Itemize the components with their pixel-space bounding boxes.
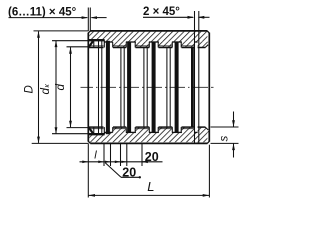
chamfer dim arrow right-pointing [82,16,89,19]
svg-text:(6…11) × 45°: (6…11) × 45° [8,7,77,19]
recess step top [103,40,105,47]
chamfer dim arrow left-pointing [90,16,97,19]
hatch bottom band shallow strip [89,134,104,142]
recess root line bottom [88,133,104,135]
hatch bottom band end block [198,127,209,132]
s dim ext top [211,126,239,128]
recess entry chamfer far edge bottom [93,127,95,133]
groove g5 wall / extension line left [194,11,196,143]
svg-text:L: L [147,179,154,194]
leader for lower 20 [105,163,121,178]
chamfer dim tail right [92,17,107,19]
right end inner chamfer bottom [205,127,208,130]
s arrow down [232,120,235,127]
groove solid bar g2 [127,42,131,132]
dimension dk arrow down [55,127,58,134]
svg-text:d: d [40,88,52,95]
bore line bottom (thick, with groove gaps) [89,126,205,128]
svg-text:2 × 45°: 2 × 45° [143,6,180,18]
bottom chain arrow to left face [82,161,88,164]
hatch bottom band deep block 3 [159,127,172,132]
chamfer outer bottom-right [207,141,209,143]
bottom chain ext at 104 [103,143,105,166]
L arrow right [203,194,210,197]
thread major thin line top [89,45,194,47]
groove notch side walls bottom band [126,127,181,132]
chamfer outer top-left [88,31,90,33]
dimension d arrow up [69,47,72,54]
bottom chain dim line [80,161,147,163]
thread major thin line bottom [89,128,194,130]
groove solid bar g4 [175,42,179,132]
groove far-side channel lines g3 [144,48,147,128]
dimension dk line [55,41,57,134]
chamfer ext line x=90.3 [89,8,91,32]
hatch top band deep block 2 [136,42,149,48]
bottom chain ext line at left face [87,143,89,197]
recess entry chamfer far edge top [93,41,95,47]
hatch bottom band deep block 1 [113,127,126,132]
hatch top band deep block 1 [113,42,126,48]
hatch top band deep block 3 [159,42,172,48]
bottom chain arrow at 104 [98,161,104,164]
groove g5 wall / extension line right [198,11,200,143]
dimension d line [70,47,72,127]
L dim right ext [208,145,210,198]
groove solid bar g3 [152,42,156,132]
chamfer dim line top-right [143,16,193,18]
dimension D extension bottom [32,142,89,144]
part left face [87,33,89,142]
dimension D arrow up [37,31,40,38]
dimension D arrow down [37,137,40,144]
dimension d extension top [67,46,89,48]
bottom chain arrow at 110.5 [105,161,111,163]
groove far-side channel lines g1 [99,41,102,134]
L arrow left [88,194,95,197]
hatch top band end block [198,42,209,48]
groove 1 notch walls top [104,42,113,132]
part outline top edge [90,30,207,32]
groove far-side channel lines g2 [121,48,124,128]
hatch top band deep block 4 [182,42,195,48]
groove notch root lines top band [126,41,198,43]
hatch bottom band deep block 4 [182,127,195,132]
recess step bottom [103,127,105,134]
right end inner chamfer top [205,45,208,48]
s dim ext bottom [211,142,239,144]
dimension D extension top [34,30,89,32]
groove solid bar g5 [191,48,194,128]
bottom chain arrow at 125.8 [115,161,121,164]
dimension d extension bottom [67,127,89,129]
dimension dk arrow up [55,40,58,47]
dimension d arrow down [69,121,72,128]
recess entry chamfer top [89,41,93,47]
chamfer dim arrow right-pointing (right) [188,16,195,19]
L dim line [88,194,209,196]
axis center line [81,86,214,88]
bottom chain ext at 110.5 [110,143,112,166]
groove far-side channel lines g4 [167,48,170,128]
s dim line lower tail [233,143,235,157]
svg-text:20: 20 [122,166,136,180]
chamfer ext line (left face up) [87,8,89,32]
hatch top band shallow strip [89,32,104,40]
groove notch side walls top band [126,42,181,48]
recess entry chamfer bottom [89,128,93,134]
svg-text:D: D [23,85,35,93]
bottom chain ext at 125.8 [120,143,122,166]
bore line top (thick, with groove gaps) [89,47,205,49]
part right face [208,33,210,142]
chamfer dim tail far right [199,16,210,18]
dimension dk extension bottom [52,133,88,135]
dimension dk extension top [52,40,88,42]
svg-text:s: s [219,136,231,142]
groove notch root lines bottom band [126,131,198,133]
bottom chain ext at 141.5 [141,143,143,166]
s dim line upper tail [233,112,235,128]
svg-text:d: d [55,84,67,91]
groove solid bar g1 [106,41,110,134]
s arrow up [232,143,235,150]
chamfer outer bottom-left [88,141,90,143]
hatch bottom band deep block 2 [136,127,149,132]
recess root line top [88,39,104,41]
chamfer dim line top-left [9,17,88,19]
dimension D line [38,31,40,142]
part outline bottom edge [90,142,207,144]
chamfer dim arrow left-pointing (right) [198,16,205,19]
chamfer outer top-right [207,31,209,33]
